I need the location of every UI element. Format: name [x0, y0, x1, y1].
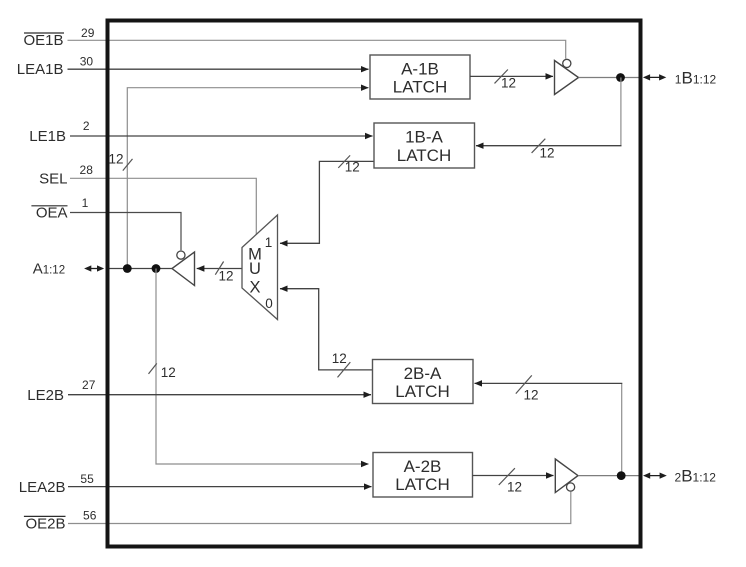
bus slash 12 (2B feedback)	[516, 375, 532, 393]
svg-text:2B1:12: 2B1:12	[675, 467, 717, 486]
signal label OE2B	[24, 515, 66, 532]
wire 1B feedback vertical	[620, 78, 622, 146]
svg-text:12: 12	[108, 151, 123, 166]
bus slash 12 (A-1B out)	[495, 70, 508, 84]
svg-text:12: 12	[218, 268, 233, 283]
wire 1B out to border	[579, 77, 639, 79]
svg-text:12: 12	[345, 160, 360, 175]
svg-text:0: 0	[265, 296, 273, 311]
bubble OE2B on buffer 2B	[567, 483, 575, 491]
svg-text:OE2B: OE2B	[25, 515, 65, 532]
svg-text:12: 12	[507, 480, 522, 495]
junction dot 2B	[617, 471, 626, 480]
wire A bus	[110, 268, 174, 270]
junction dot 1B	[616, 73, 625, 82]
svg-text:30: 30	[80, 55, 94, 69]
svg-text:1: 1	[82, 196, 89, 210]
junction dot A2	[152, 264, 161, 273]
svg-text:LATCH: LATCH	[395, 475, 449, 494]
svg-text:SEL: SEL	[39, 170, 67, 187]
signal label OEA	[31, 205, 67, 222]
wire 2B-A latch out to mux input 0	[280, 289, 373, 370]
signal label OE1B	[23, 32, 64, 49]
junction dot A1	[123, 264, 132, 273]
latch 1B-A	[374, 123, 475, 168]
svg-text:A-2B: A-2B	[404, 457, 442, 476]
mux	[242, 215, 278, 320]
svg-text:2B-A: 2B-A	[404, 364, 442, 383]
latch 2B-A	[373, 360, 474, 404]
bus slash 12 (mux out)	[215, 262, 223, 275]
wire A bus down to A-2B latch	[156, 269, 369, 465]
svg-text:LEA1B: LEA1B	[17, 61, 64, 78]
svg-text:LATCH: LATCH	[393, 78, 447, 97]
svg-text:X: X	[249, 279, 260, 297]
svg-text:LE1B: LE1B	[29, 128, 66, 145]
bus slash 12 (A to A-1B)	[123, 159, 133, 171]
wire 1B-A latch out to mux input 1	[280, 161, 374, 243]
wire OE2B	[68, 492, 571, 524]
svg-text:LEA2B: LEA2B	[19, 479, 66, 496]
bus slash 12 (A down)	[149, 363, 157, 374]
svg-text:OEA: OEA	[36, 205, 68, 222]
svg-text:1B1:12: 1B1:12	[675, 68, 717, 87]
port 2B1:12 double arrow	[643, 473, 667, 479]
bubble OE1B on buffer 1B	[563, 59, 571, 67]
svg-text:12: 12	[161, 365, 176, 380]
bus slash 12 (to mux 0)	[338, 362, 351, 377]
svg-text:A1:12: A1:12	[33, 260, 65, 277]
svg-text:12: 12	[539, 146, 554, 161]
wire OEA	[70, 213, 181, 251]
wire A bus to A-1B latch	[127, 88, 368, 269]
wire LE2B	[68, 394, 371, 396]
bus slash 12 (to mux 1)	[338, 155, 350, 168]
svg-text:U: U	[249, 260, 261, 278]
wire 2B feedback vertical	[621, 383, 623, 475]
svg-text:56: 56	[83, 509, 97, 523]
wire LE1B	[70, 135, 373, 137]
svg-text:29: 29	[81, 26, 95, 40]
port 1B1:12 double arrow	[643, 74, 666, 80]
svg-text:1B-A: 1B-A	[405, 128, 443, 147]
wire 2B out to border	[578, 475, 639, 477]
svg-text:28: 28	[80, 163, 94, 177]
wire A-1B latch to buffer 1B	[470, 75, 553, 77]
wire LEA2B	[68, 486, 372, 488]
buffer 1B	[555, 61, 579, 95]
svg-text:LATCH: LATCH	[395, 382, 449, 401]
bubble OEA on buffer A	[177, 251, 185, 259]
svg-text:A-1B: A-1B	[401, 59, 439, 78]
svg-text:OE1B: OE1B	[23, 32, 63, 49]
wire SEL	[70, 178, 256, 234]
svg-text:12: 12	[501, 76, 516, 91]
wire A-2B latch to buffer 2B	[473, 475, 554, 477]
svg-text:12: 12	[523, 388, 538, 403]
wire mux out to buffer A	[197, 268, 242, 270]
wire 1B feedback to 1B-A latch	[476, 145, 622, 147]
wire LEA1B	[68, 68, 369, 70]
svg-text:LE2B: LE2B	[27, 387, 64, 404]
svg-text:12: 12	[332, 351, 347, 366]
svg-text:2: 2	[83, 119, 90, 133]
wire 2B feedback to 2B-A latch	[475, 382, 623, 384]
bus slash 12 (1B feedback)	[532, 139, 546, 153]
svg-text:1: 1	[265, 235, 273, 250]
svg-text:27: 27	[82, 378, 96, 392]
bus slash 12 (A-2B out)	[499, 468, 515, 485]
outer box	[108, 21, 641, 547]
svg-text:55: 55	[80, 472, 94, 486]
buffer 2B	[555, 459, 578, 493]
latch A-2B	[373, 453, 473, 498]
wire A port double arrow	[84, 265, 104, 271]
wire OE1B	[68, 40, 566, 59]
latch A-1B	[370, 55, 470, 99]
svg-text:LATCH: LATCH	[397, 146, 451, 165]
buffer A (output to port A)	[172, 252, 195, 286]
